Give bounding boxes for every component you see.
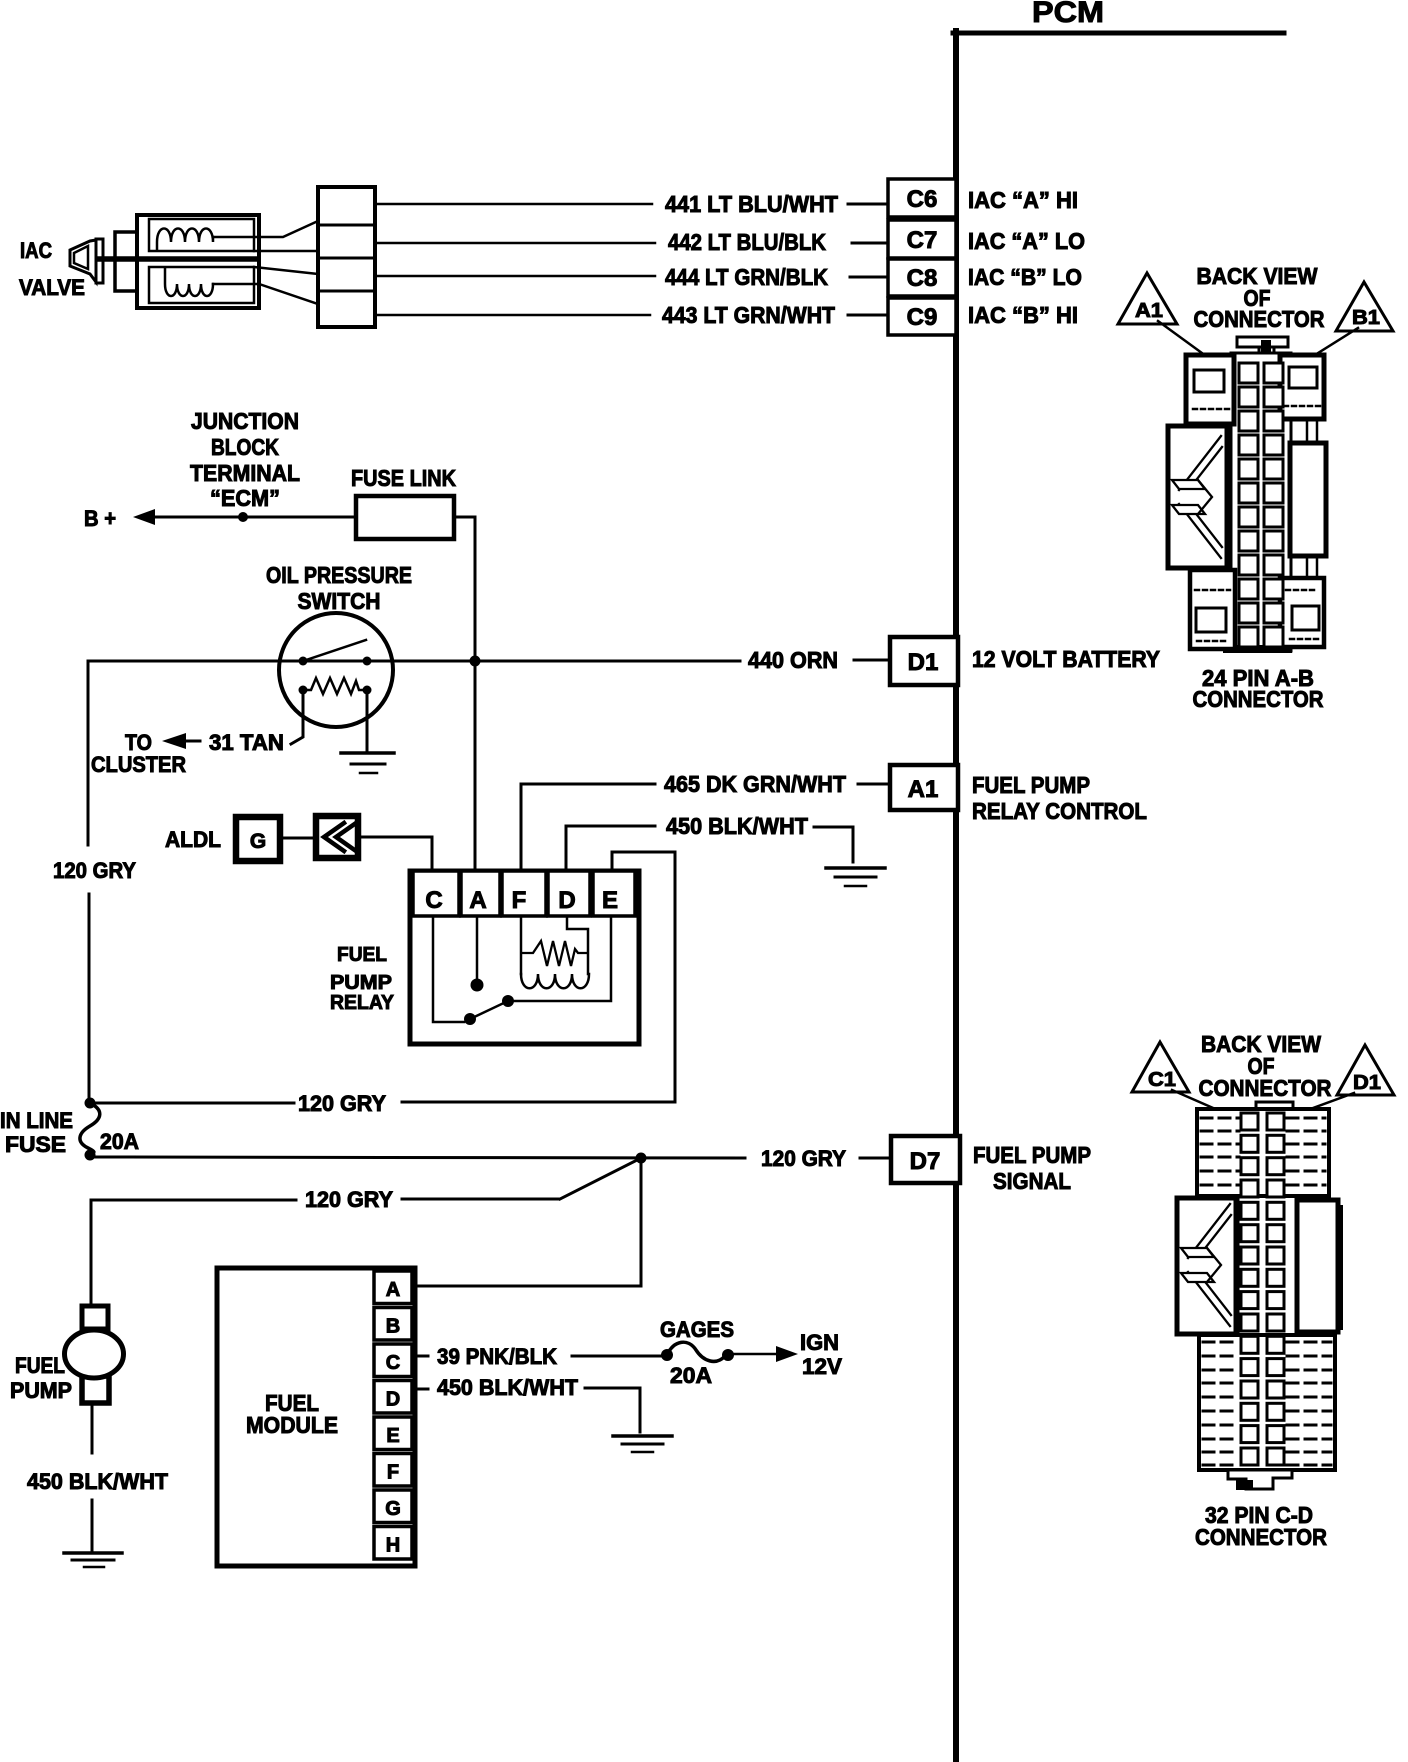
fuel pump motor — [82, 1306, 108, 1329]
wire to IGN 12V with arrow — [734, 1353, 782, 1356]
svg-text:IAC “B” HI: IAC “B” HI — [968, 302, 1078, 328]
wire coil A to connector pin 1 — [213, 221, 318, 237]
svg-text:IAC “A” LO: IAC “A” LO — [968, 228, 1085, 254]
arrow B1 to pin — [1283, 328, 1358, 375]
24 pin connector pin cavities — [1239, 363, 1258, 383]
IAC 4-pin connector block — [318, 187, 375, 327]
wire 39 PNK/BLK — [412, 1355, 428, 1358]
wire relay E to in-line fuse (120 GRY) — [402, 852, 675, 1102]
svg-text:450 BLK/WHT: 450 BLK/WHT — [666, 813, 808, 839]
PCM pin C6 — [888, 179, 956, 217]
svg-text:JUNCTION: JUNCTION — [191, 408, 299, 434]
svg-text:PCM: PCM — [1032, 0, 1104, 29]
fuel module M1 — [217, 1268, 415, 1566]
svg-text:C1: C1 — [1148, 1069, 1176, 1091]
svg-text:A1: A1 — [1135, 300, 1163, 322]
relay pin E — [593, 871, 635, 916]
svg-text:OIL PRESSURE: OIL PRESSURE — [266, 562, 412, 588]
svg-text:IAC “B” LO: IAC “B” LO — [968, 264, 1082, 290]
24 pin connector lower-left cavity — [1190, 570, 1235, 649]
IAC valve mount collar — [115, 232, 139, 291]
fuel module pin C — [374, 1344, 412, 1377]
24 pin connector upper-right cavity — [1280, 355, 1324, 419]
svg-text:C: C — [386, 1352, 400, 1374]
svg-text:D: D — [386, 1389, 400, 1411]
svg-text:450 BLK/WHT: 450 BLK/WHT — [27, 1469, 169, 1494]
wire 450 BLK/WHT (module D) — [412, 1388, 428, 1391]
32 pin connector bottom shell — [1199, 1335, 1335, 1470]
svg-text:443 LT GRN/WHT: 443 LT GRN/WHT — [662, 302, 835, 328]
24 pin connector central shell — [1231, 353, 1291, 651]
wire 31 TAN to cluster — [291, 690, 303, 744]
PCM pin C8 — [888, 259, 956, 296]
callout triangle A1 — [1118, 273, 1177, 324]
svg-text:VALVE: VALVE — [19, 275, 85, 300]
callout triangle B1 — [1336, 282, 1393, 331]
svg-text:20A: 20A — [670, 1363, 712, 1388]
in-line fuse 20A — [85, 1098, 96, 1109]
ALDL pin G — [236, 817, 280, 861]
svg-text:FUEL: FUEL — [337, 944, 387, 966]
wire fuse link to relay pin A — [454, 517, 475, 871]
svg-text:SIGNAL: SIGNAL — [993, 1168, 1071, 1194]
24 pin connector lower-right cavity — [1280, 578, 1324, 647]
svg-text:FUSE: FUSE — [5, 1132, 66, 1157]
oil pressure switch contacts — [299, 657, 308, 666]
svg-text:A1: A1 — [908, 776, 939, 803]
wire 450 BLK/WHT (relay D) — [566, 826, 655, 871]
svg-text:H: H — [386, 1535, 400, 1557]
svg-text:120 GRY: 120 GRY — [53, 858, 136, 883]
32 pin connector right lock wing — [1297, 1200, 1338, 1332]
svg-text:FUSE LINK: FUSE LINK — [351, 465, 456, 491]
svg-text:RELAY CONTROL: RELAY CONTROL — [972, 798, 1147, 824]
32 pin connector top key tab — [1256, 1102, 1293, 1110]
wire B+ feed with arrow — [150, 516, 356, 519]
24 pin connector upper-left cavity — [1186, 355, 1234, 424]
svg-text:G: G — [250, 830, 266, 853]
svg-text:B +: B + — [84, 506, 116, 531]
svg-text:120 GRY: 120 GRY — [761, 1146, 846, 1171]
ground (fuel pump) — [64, 1551, 122, 1555]
svg-text:442 LT BLU/BLK: 442 LT BLU/BLK — [668, 229, 826, 255]
oil pressure switch sender resistor — [303, 678, 367, 694]
32 pin connector pin cavities — [1241, 1113, 1258, 1130]
wire junction to fuel module pin A — [413, 1158, 641, 1286]
wire ALDL to relay pin C — [360, 837, 432, 871]
wire coil B to connector pin 4 — [213, 284, 318, 304]
IAC coil B (bottom winding) — [165, 268, 213, 296]
32 pin connector central shell — [1237, 1196, 1240, 1335]
fuel module pin G — [374, 1490, 412, 1523]
svg-text:F: F — [512, 887, 527, 914]
svg-text:CONNECTOR: CONNECTOR — [1199, 1075, 1332, 1101]
svg-text:G: G — [385, 1498, 401, 1520]
ALDL connector symbol — [316, 816, 358, 858]
svg-text:SWITCH: SWITCH — [298, 588, 381, 614]
32 pin connector top shell — [1197, 1109, 1329, 1196]
fuel module pin E — [374, 1417, 412, 1450]
fuel module pin F — [374, 1454, 412, 1487]
oil pressure switch body — [279, 613, 393, 727]
relay pin D — [548, 871, 590, 916]
svg-text:444 LT GRN/BLK: 444 LT GRN/BLK — [665, 264, 828, 290]
svg-text:CONNECTOR: CONNECTOR — [1193, 686, 1324, 712]
oil pressure switch blade — [303, 640, 366, 661]
fuel pump relay K1 outline — [410, 871, 639, 1044]
wire 442 — [375, 242, 655, 245]
wire 440 main feed — [88, 660, 740, 663]
wire G to connector — [281, 837, 313, 840]
PCM pin C9 — [888, 298, 956, 335]
svg-text:IN LINE: IN LINE — [0, 1108, 73, 1133]
svg-text:440 ORN: 440 ORN — [748, 647, 838, 673]
svg-text:GAGES: GAGES — [660, 1317, 734, 1342]
svg-text:F: F — [387, 1462, 399, 1484]
wire 441 — [375, 203, 652, 206]
relay pin C — [413, 871, 459, 916]
svg-text:FUEL PUMP: FUEL PUMP — [972, 772, 1090, 798]
callout triangle D1 — [1337, 1045, 1394, 1095]
arrow C1 to pin — [1172, 1090, 1236, 1118]
relay pin A — [461, 871, 500, 916]
wire switch to ground — [366, 690, 369, 753]
PCM pin C7 — [888, 220, 956, 258]
svg-text:120 GRY: 120 GRY — [298, 1091, 386, 1116]
ground (fuel module D) — [613, 1434, 672, 1438]
svg-text:C6: C6 — [907, 186, 938, 213]
svg-text:IGN: IGN — [800, 1330, 839, 1355]
svg-text:CLUSTER: CLUSTER — [91, 752, 186, 777]
svg-text:FUEL PUMP: FUEL PUMP — [973, 1142, 1091, 1168]
wire coil A to connector pin 2 — [254, 250, 318, 253]
svg-text:TERMINAL: TERMINAL — [190, 460, 300, 486]
svg-text:E: E — [386, 1425, 399, 1447]
svg-text:B: B — [386, 1316, 400, 1338]
relay coil winding — [520, 916, 523, 974]
fuel module pin A — [374, 1271, 412, 1304]
relay switch blade — [470, 1001, 508, 1019]
svg-text:A: A — [469, 887, 486, 914]
wire 465 DK GRN/WHT — [521, 784, 655, 871]
PCM pin A1 — [890, 765, 958, 810]
IAC coil A chamber — [149, 219, 254, 251]
wire 120 GRY to fuel pump — [402, 1198, 558, 1201]
svg-text:RELAY: RELAY — [330, 992, 395, 1014]
arrow A1 to pin — [1158, 321, 1228, 372]
svg-text:B1: B1 — [1352, 307, 1380, 329]
svg-text:PUMP: PUMP — [330, 972, 392, 994]
wire coil B to connector pin 3 — [254, 267, 318, 274]
svg-text:D1: D1 — [1353, 1072, 1381, 1094]
wire 120 GRY left branch — [87, 661, 90, 845]
svg-text:120 GRY: 120 GRY — [305, 1187, 393, 1212]
24 pin connector right lock wing — [1290, 443, 1326, 556]
PCM pin D1 — [890, 637, 958, 685]
32 pin connector bottom key tab — [1228, 1470, 1292, 1489]
IAC coil B chamber — [149, 267, 254, 303]
fuel module pin B — [374, 1308, 412, 1341]
24 pin connector top key tab — [1237, 337, 1288, 347]
32 pin connector left lock wing — [1177, 1198, 1236, 1334]
relay internal wire from C — [433, 916, 464, 1022]
wire junction diagonal — [560, 1158, 641, 1199]
wire pump to ground (450 BLK/WHT) — [91, 1403, 94, 1453]
svg-text:20A: 20A — [100, 1129, 139, 1154]
relay internal wire from A — [476, 916, 479, 980]
relay switch common contact — [464, 1013, 476, 1025]
IAC coil A (top winding) — [157, 229, 213, 251]
IAC valve pintle cone — [70, 240, 96, 282]
svg-text:“ECM”: “ECM” — [210, 485, 280, 511]
svg-text:D1: D1 — [908, 649, 939, 676]
24 pin connector left lock wing — [1168, 426, 1227, 568]
svg-text:C8: C8 — [907, 265, 938, 292]
svg-text:PUMP: PUMP — [10, 1378, 72, 1403]
ground (oil pressure switch) — [341, 751, 394, 755]
callout triangle C1 — [1132, 1042, 1189, 1092]
svg-text:12V: 12V — [802, 1354, 842, 1379]
PCM left boundary wire — [953, 31, 959, 1762]
svg-text:BLOCK: BLOCK — [211, 434, 279, 460]
svg-text:465 DK GRN/WHT: 465 DK GRN/WHT — [664, 771, 846, 797]
PCM top boundary wire — [953, 31, 1284, 36]
relay pin F — [502, 871, 546, 916]
svg-text:D: D — [558, 887, 575, 914]
wire 444 — [375, 275, 655, 278]
wire 120 GRY to PCM D7 — [92, 1157, 745, 1158]
svg-text:CONNECTOR: CONNECTOR — [1195, 1524, 1327, 1550]
svg-text:450 BLK/WHT: 450 BLK/WHT — [437, 1375, 579, 1400]
svg-text:31 TAN: 31 TAN — [209, 730, 284, 755]
svg-text:39 PNK/BLK: 39 PNK/BLK — [437, 1344, 557, 1369]
svg-text:A: A — [386, 1279, 400, 1301]
IAC valve body — [137, 215, 259, 308]
ground (450 BLK/WHT relay) — [826, 866, 885, 870]
arrow D1 to pin — [1294, 1093, 1354, 1115]
svg-text:MODULE: MODULE — [246, 1412, 338, 1438]
node: fuel pump signal junction — [636, 1153, 647, 1164]
svg-text:CONNECTOR: CONNECTOR — [1194, 306, 1325, 332]
svg-text:IAC “A” HI: IAC “A” HI — [968, 187, 1078, 213]
fuel module pin H — [374, 1527, 412, 1560]
node: battery feed junction — [470, 656, 481, 667]
IAC valve shaft — [99, 256, 256, 262]
svg-text:D7: D7 — [910, 1148, 941, 1175]
svg-text:441 LT BLU/WHT: 441 LT BLU/WHT — [665, 191, 838, 217]
svg-text:C: C — [425, 887, 442, 914]
svg-text:IAC: IAC — [20, 238, 52, 263]
relay internal wire to E — [508, 916, 611, 1001]
wire 443 — [375, 314, 650, 317]
svg-text:E: E — [602, 887, 618, 914]
svg-text:C7: C7 — [907, 227, 938, 254]
fuel module pin D — [374, 1381, 412, 1414]
svg-text:12 VOLT BATTERY: 12 VOLT BATTERY — [972, 646, 1160, 672]
svg-text:FUEL: FUEL — [15, 1353, 65, 1378]
svg-text:C9: C9 — [907, 304, 938, 331]
svg-text:ALDL: ALDL — [165, 827, 221, 852]
PCM pin D7 — [891, 1136, 960, 1183]
